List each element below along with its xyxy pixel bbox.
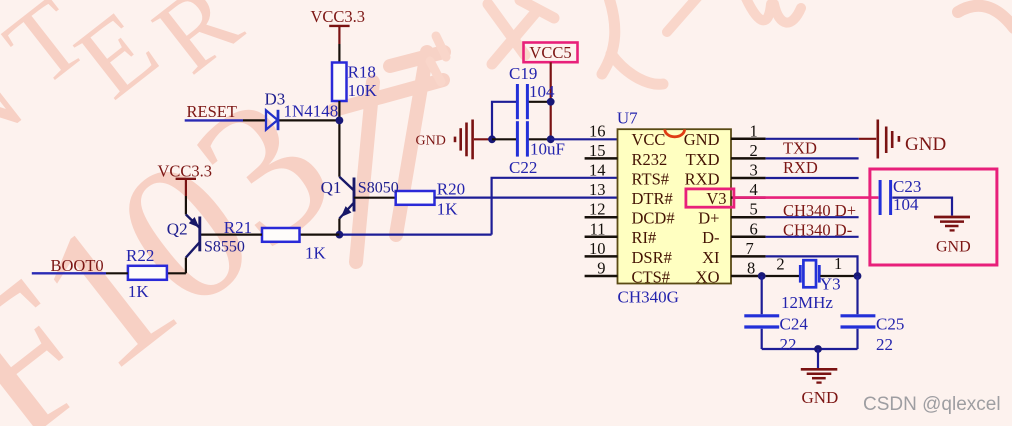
- svg-text:D-: D-: [702, 228, 719, 247]
- diode D3: [266, 110, 278, 130]
- svg-text:Q1: Q1: [321, 178, 342, 197]
- svg-text:R22: R22: [126, 246, 154, 265]
- wire C23 to GND: [892, 198, 952, 216]
- svg-text:1: 1: [834, 254, 842, 273]
- wire pin1 to GND: [766, 138, 859, 140]
- pin 2 stub: [731, 157, 766, 160]
- wire node F down to C24: [761, 276, 763, 349]
- svg-text:GND: GND: [684, 130, 720, 149]
- svg-text:10K: 10K: [348, 81, 378, 100]
- node H junction dot: [814, 345, 822, 353]
- resistor R18: [332, 63, 347, 102]
- svg-text:C19: C19: [509, 64, 537, 83]
- svg-text:GND: GND: [936, 239, 971, 256]
- svg-text:CSDN @qlexcel: CSDN @qlexcel: [863, 394, 1001, 415]
- wire C19 right to node C: [529, 101, 551, 103]
- pin 4 stub: [731, 196, 766, 199]
- wire CH340 D- pin6: [766, 236, 859, 238]
- capacitor C23: [880, 180, 891, 215]
- pink box V3: [686, 189, 734, 207]
- svg-text:V3: V3: [706, 189, 726, 208]
- svg-text:U7: U7: [617, 109, 638, 128]
- wire V3 to C23 pink: [734, 196, 879, 199]
- svg-text:4: 4: [750, 180, 758, 199]
- wire R18 to node A and down to Q1: [338, 101, 340, 177]
- svg-text:VCC3.3: VCC3.3: [311, 7, 366, 26]
- ground GND C23 symbol: [934, 217, 970, 230]
- svg-text:XI: XI: [702, 248, 719, 267]
- wire pin7 XI net: [766, 256, 858, 276]
- node B junction dot: [336, 231, 344, 239]
- wire C19 left net: [492, 102, 516, 140]
- wire R22 to Q2: [167, 272, 186, 274]
- node A junction dot: [336, 117, 344, 125]
- svg-text:10: 10: [589, 239, 606, 258]
- svg-text:RTS#: RTS#: [632, 169, 670, 188]
- svg-text:R20: R20: [437, 180, 465, 199]
- wire RTS# pin 14 net: [492, 178, 618, 235]
- svg-text:VCC: VCC: [632, 130, 666, 149]
- svg-text:DSR#: DSR#: [632, 248, 672, 267]
- svg-text:12MHz: 12MHz: [781, 293, 833, 312]
- svg-text:C24: C24: [780, 315, 809, 334]
- wire GND stub bottom: [817, 349, 819, 368]
- svg-text:C23: C23: [893, 177, 921, 196]
- svg-text:VCC5: VCC5: [529, 43, 571, 62]
- wire BOOT0 label segment: [32, 272, 106, 274]
- wire RXD pin3: [766, 177, 859, 179]
- op-amp U7 IC body: [618, 129, 732, 283]
- pin 9 stub: [585, 275, 618, 278]
- wire D3 to node A: [279, 119, 339, 121]
- transistor Q2: [186, 215, 200, 258]
- red arc notch: [665, 129, 685, 136]
- wire crystal to node G: [820, 275, 857, 277]
- transistor Q1: [339, 177, 354, 219]
- svg-text:DCD#: DCD#: [632, 209, 675, 228]
- svg-text:11: 11: [590, 219, 606, 238]
- svg-text:CH340 D-: CH340 D-: [783, 220, 852, 239]
- pin numbers left: [589, 121, 606, 277]
- wire TXD pin2: [766, 157, 859, 159]
- svg-text:DTR#: DTR#: [632, 189, 673, 208]
- svg-text:CH340 D+: CH340 D+: [783, 201, 856, 220]
- wire R21 to node B: [300, 234, 340, 236]
- pin numbers right: [746, 121, 758, 277]
- ground GND left symbol: [455, 120, 492, 160]
- svg-text:CH340G: CH340G: [618, 288, 679, 307]
- pin 3 stub: [731, 177, 766, 180]
- IC pin names right column: [684, 130, 727, 286]
- resistor R22: [128, 266, 167, 280]
- svg-text:22: 22: [876, 335, 893, 354]
- svg-text:GND: GND: [416, 134, 446, 149]
- pin 1 stub: [731, 138, 766, 141]
- svg-text:15: 15: [589, 141, 606, 160]
- crystal Y3: [800, 260, 819, 287]
- wire BOOT0 to R22: [106, 272, 128, 274]
- power VCC3.3 symbol 2: [176, 179, 196, 196]
- svg-text:1: 1: [750, 121, 758, 140]
- svg-text:1N4148: 1N4148: [284, 101, 339, 120]
- pink box C23 area: [870, 169, 997, 265]
- svg-text:D3: D3: [265, 90, 286, 109]
- svg-text:104: 104: [893, 195, 919, 214]
- ground GND bottom symbol: [801, 369, 838, 382]
- pin 15 stub: [585, 157, 618, 160]
- ground GND pin1 symbol: [859, 120, 899, 159]
- node D junction dot: [488, 135, 496, 143]
- svg-text:1K: 1K: [437, 200, 459, 219]
- svg-text:10uF: 10uF: [530, 139, 565, 158]
- svg-text:C22: C22: [509, 158, 537, 177]
- wire Q2 collector down: [185, 258, 187, 274]
- capacitor C22: [517, 121, 527, 156]
- wire pin8 XO to crystal: [766, 275, 800, 277]
- svg-text:22: 22: [780, 335, 797, 354]
- wire CH340 D+ pin5: [766, 216, 859, 218]
- node G junction dot: [854, 272, 862, 280]
- svg-text:12: 12: [589, 200, 606, 219]
- pin 7 stub: [731, 255, 766, 258]
- svg-text:14: 14: [589, 161, 606, 180]
- svg-text:TXD: TXD: [686, 150, 720, 169]
- node F junction dot: [758, 272, 766, 280]
- svg-text:GND: GND: [802, 388, 839, 407]
- svg-text:7: 7: [746, 239, 754, 258]
- svg-text:R232: R232: [632, 150, 668, 169]
- svg-text:6: 6: [750, 219, 758, 238]
- svg-text:GND: GND: [905, 134, 946, 155]
- wire node D to C22: [492, 138, 516, 140]
- pin 10 stub: [585, 255, 618, 258]
- svg-text:TXD: TXD: [783, 138, 817, 157]
- wire node E to pin 16 VCC: [551, 138, 618, 140]
- svg-text:S8550: S8550: [204, 238, 245, 255]
- wire bottom crystal net: [762, 348, 858, 350]
- wire C22 to node E: [529, 138, 551, 140]
- node C junction dot: [547, 98, 555, 106]
- IC pin names left column: [632, 130, 675, 286]
- wire Q1 base to R20: [354, 197, 396, 199]
- svg-text:Y3: Y3: [820, 274, 841, 293]
- pin 8 stub: [731, 275, 766, 278]
- svg-text:2: 2: [750, 141, 758, 160]
- svg-text:RXD: RXD: [685, 169, 720, 188]
- svg-text:CTS#: CTS#: [632, 267, 671, 286]
- svg-text:R21: R21: [224, 218, 252, 237]
- svg-text:R18: R18: [348, 62, 376, 81]
- power box VCC5: [524, 43, 578, 63]
- wire RESET to D3: [243, 119, 266, 121]
- pin 5 stub: [731, 216, 766, 219]
- svg-text:C25: C25: [876, 315, 904, 334]
- svg-text:9: 9: [597, 259, 605, 278]
- wire node B horizontal: [339, 234, 491, 236]
- svg-text:13: 13: [589, 180, 606, 199]
- svg-text:5: 5: [750, 200, 758, 219]
- svg-text:RI#: RI#: [632, 228, 657, 247]
- svg-text:1K: 1K: [128, 282, 149, 301]
- pin 11 stub: [585, 236, 618, 239]
- wire RESET label segment: [185, 119, 243, 121]
- wire VCC3.3 to R18: [338, 44, 340, 63]
- wire VCC3.3 to Q2 emitter: [185, 196, 187, 215]
- wire Q2 base to R21: [200, 234, 262, 236]
- wire Q1 emitter down: [338, 219, 340, 235]
- svg-text:S8050: S8050: [358, 179, 399, 196]
- svg-text:VCC3.3: VCC3.3: [158, 162, 213, 181]
- capacitor C25: [841, 316, 876, 327]
- svg-text:1K: 1K: [305, 244, 327, 263]
- svg-text:Q2: Q2: [167, 220, 188, 239]
- node E junction dot: [547, 135, 555, 143]
- wire node G down to C25: [856, 276, 858, 349]
- power VCC3.3 symbol 1: [329, 26, 349, 44]
- svg-text:XO: XO: [696, 267, 720, 286]
- svg-text:BOOT0: BOOT0: [51, 256, 104, 275]
- capacitor C24: [744, 316, 779, 327]
- resistor R21: [262, 228, 300, 242]
- pin 6 stub: [731, 236, 766, 239]
- svg-text:2: 2: [776, 255, 784, 274]
- resistor R20: [396, 191, 435, 205]
- svg-text:D+: D+: [698, 209, 719, 228]
- svg-text:8: 8: [747, 259, 755, 278]
- svg-text:16: 16: [589, 121, 606, 140]
- pin 12 stub: [585, 216, 618, 219]
- svg-text:104: 104: [529, 82, 555, 101]
- wire R20 to pin 13 DTR#: [435, 197, 618, 199]
- svg-text:RESET: RESET: [187, 102, 237, 121]
- svg-text:RXD: RXD: [783, 158, 818, 177]
- wire VCC5 stem: [550, 62, 552, 139]
- capacitor C19: [517, 84, 527, 119]
- svg-text:3: 3: [750, 161, 758, 180]
